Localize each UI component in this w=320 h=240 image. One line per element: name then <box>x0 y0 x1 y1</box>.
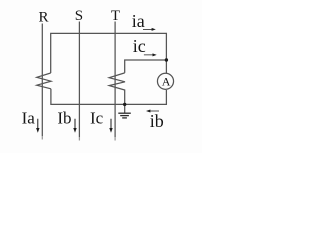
arrow Ia (down) <box>36 119 39 133</box>
wire phase line S <box>78 22 80 138</box>
node junction dot ground / bottom bus <box>123 103 126 106</box>
svg-text:Ic: Ic <box>90 109 104 128</box>
wire ic bus <box>125 60 167 73</box>
wire top bus ia <box>51 33 167 73</box>
node junction dot ic bus / ammeter branch <box>165 58 168 61</box>
wire phase line T <box>114 22 116 138</box>
ammeter U1 circle <box>157 73 173 89</box>
svg-text:Ib: Ib <box>57 109 71 128</box>
svg-text:R: R <box>39 9 49 25</box>
svg-text:ib: ib <box>150 111 164 131</box>
arrow ia (right) <box>143 28 156 31</box>
arrow ic (right) <box>144 53 157 56</box>
resistor Ra (left zigzag) <box>37 73 51 89</box>
ground bar 2 <box>120 115 129 117</box>
ground bar 3 <box>122 117 127 119</box>
svg-text:ic: ic <box>133 36 146 56</box>
svg-text:S: S <box>75 8 83 24</box>
wire ammeter top lead <box>165 60 167 73</box>
arrow ib (left) <box>146 110 159 113</box>
wire bottom bus <box>51 89 166 105</box>
ground stub <box>124 104 126 113</box>
svg-text:ia: ia <box>132 11 145 31</box>
svg-text:Ia: Ia <box>22 109 36 128</box>
arrow Ib (down) <box>73 119 76 133</box>
wire phase line R <box>41 24 43 137</box>
svg-text:T: T <box>111 8 120 24</box>
svg-text:A: A <box>162 75 171 89</box>
ground bar 1 <box>118 112 131 114</box>
arrow Ic (down) <box>109 119 112 133</box>
resistor Rc (right zigzag) <box>109 73 125 105</box>
